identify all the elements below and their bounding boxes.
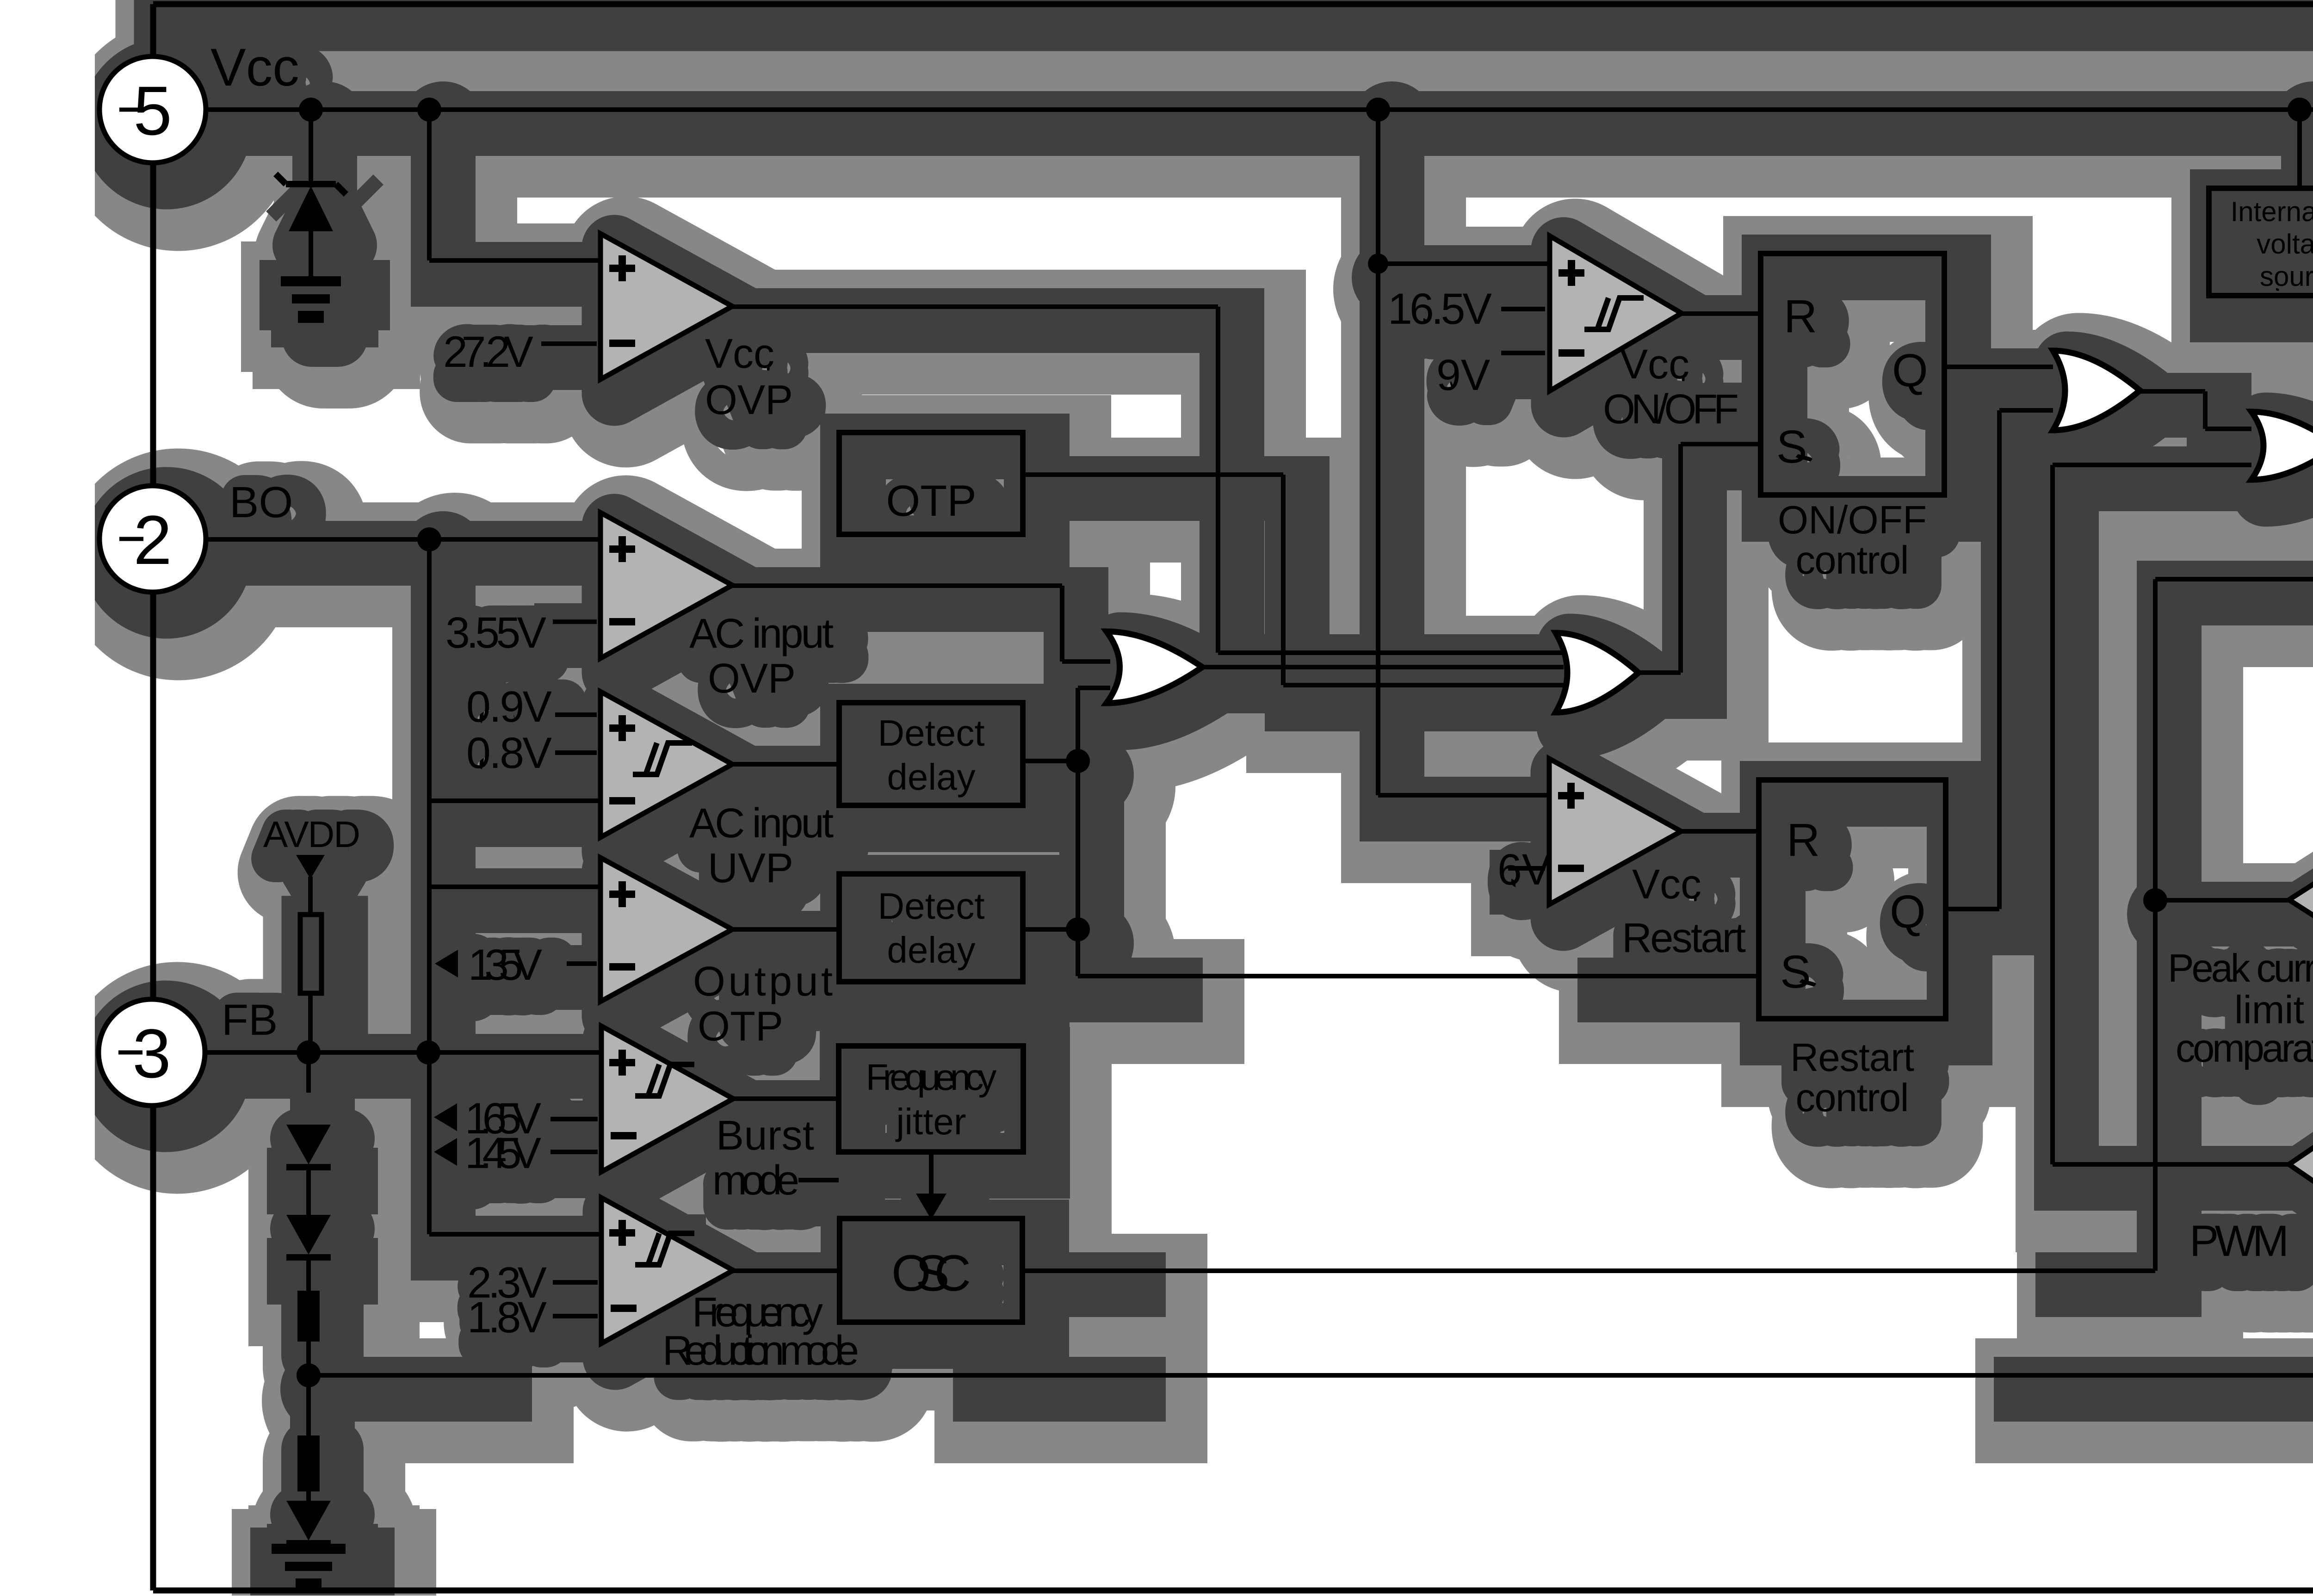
- svg-text:comparator: comparator: [2176, 1027, 2313, 1070]
- minus marker U8: [1558, 865, 1584, 872]
- node BO feed: [417, 527, 441, 551]
- wire G3 output to G4: [2140, 389, 2205, 394]
- svg-text:6V: 6V: [1497, 845, 1551, 894]
- svg-text:Peak current: Peak current: [2168, 946, 2313, 990]
- node VCC zener tap: [299, 98, 323, 122]
- block OTP: [839, 433, 1023, 534]
- wire OSC output: [1022, 1268, 1119, 1273]
- comparator U4 Output OTP: [600, 858, 732, 1002]
- comparator U10 PWM: [2289, 1039, 2313, 1291]
- plus marker U7: [1558, 260, 1584, 286]
- svg-text:ON/OFF: ON/OFF: [1778, 498, 1927, 542]
- wire FB to comparators: [205, 1050, 600, 1055]
- wire Detect delay A output: [1023, 759, 1078, 763]
- pin 2 BO: [99, 486, 206, 592]
- wire U3 output into Detect delay A: [732, 762, 839, 767]
- svg-text:OVP: OVP: [705, 377, 793, 423]
- svg-text:Burst: Burst: [716, 1113, 814, 1159]
- wire Restart Q to G3: [1946, 907, 1999, 911]
- wire VCC to U1 plus: [427, 121, 432, 260]
- node FB resistor tap: [297, 1040, 321, 1064]
- arrow jitter to OSC: [916, 1194, 946, 1219]
- svg-text:Internal low: Internal low: [2231, 196, 2313, 227]
- wire fault bus line 3: [1283, 683, 1568, 687]
- wire R1 to FB: [308, 993, 313, 1052]
- svg-text:0.9V: 0.9V: [466, 682, 552, 731]
- wire ON/OFF Q to G3: [1944, 365, 2053, 369]
- svg-text:OVP: OVP: [708, 656, 796, 702]
- svg-text:Reduction mode: Reduction mode: [662, 1328, 859, 1374]
- svg-text:Detect: Detect: [878, 712, 984, 754]
- svg-text:Frequency: Frequency: [866, 1057, 997, 1098]
- wire PWM output stub: [2053, 1162, 2289, 1167]
- comparator U5 Burst mode: [601, 1026, 733, 1172]
- wire peak comparator stub: [2155, 898, 2289, 903]
- zener diode D1 on VCC: [309, 121, 313, 184]
- node Detect A join: [1066, 749, 1090, 773]
- node VCC OVP tap: [417, 98, 441, 122]
- comparator U2 AC input OVP: [600, 513, 732, 658]
- hysteresis U5: [635, 1064, 694, 1096]
- svg-text:BO: BO: [229, 478, 293, 527]
- wire U1 output to fault bus: [732, 304, 1218, 309]
- plus marker U6: [609, 1220, 635, 1246]
- wire fault vertical to OR1 input B: [1076, 688, 1080, 976]
- svg-text:27.2V: 27.2V: [443, 328, 533, 377]
- wire 1.8V dash: [553, 1314, 598, 1318]
- svg-text:5: 5: [133, 72, 172, 149]
- plus marker U5: [609, 1050, 635, 1076]
- wire U7 output to latch R: [1682, 311, 1761, 316]
- block OSC: [840, 1219, 1022, 1322]
- IC package border bottom: [153, 1588, 2313, 1594]
- IC package border top: [153, 1, 2313, 7]
- wire 16.5V dash: [1501, 307, 1545, 311]
- comparator U8 Vcc Restart: [1549, 759, 1681, 904]
- arrow AVDD down: [296, 855, 325, 879]
- svg-text:AVDD: AVDD: [263, 814, 360, 855]
- wire FB to U6: [429, 1232, 601, 1237]
- wire VCC to internal source: [2297, 121, 2302, 188]
- wire BO to U2 plus: [207, 537, 600, 542]
- OR gate G4: [2251, 412, 2313, 480]
- wire G2 to ON/OFF latch S: [1678, 444, 1683, 673]
- node FB sense tap: [416, 1040, 440, 1064]
- svg-text:9V: 9V: [1436, 351, 1490, 400]
- wire 1.65V dash: [550, 1117, 598, 1121]
- wire to OR1 input B: [1078, 686, 1110, 690]
- svg-text:AC input: AC input: [689, 611, 834, 657]
- svg-text:jitter: jitter: [895, 1101, 966, 1142]
- svg-text:R: R: [1787, 814, 1820, 866]
- wire FB diode chain: [306, 1052, 311, 1093]
- diode D5 body: [297, 1435, 320, 1491]
- comparator U1 Vcc OVP: [600, 234, 732, 379]
- arrow 1.65V node: [434, 1103, 457, 1131]
- wire VCC sense vertical: [1376, 121, 1380, 795]
- svg-text:3: 3: [132, 1015, 171, 1092]
- wire BO sense vertical: [427, 539, 432, 801]
- plus marker U3: [609, 715, 635, 741]
- hysteresis U7: [1584, 298, 1644, 329]
- wire 27.2V dash: [541, 341, 597, 346]
- wire 2.3V dash: [553, 1280, 598, 1285]
- node internal source tap: [2288, 98, 2312, 122]
- wire peak fault to G4: [2053, 463, 2251, 467]
- plus marker U1: [609, 255, 635, 281]
- wire D2 to D3: [306, 1167, 311, 1221]
- block Detect delay A: [839, 703, 1023, 805]
- svg-text:limit: limit: [2234, 988, 2304, 1032]
- svg-text:UVP: UVP: [708, 845, 793, 891]
- diode D2: [286, 1125, 331, 1164]
- svg-text:R: R: [1784, 291, 1817, 342]
- svg-text:Detect: Detect: [878, 885, 984, 927]
- comparator U9 peak current limit: [2289, 782, 2313, 1018]
- block Internal low voltage source: [2209, 188, 2313, 296]
- minus marker U3: [609, 797, 635, 804]
- block ON/OFF control latch: [1761, 254, 1944, 495]
- diode D4 body: [297, 1291, 320, 1342]
- node VCC sense branch: [1368, 254, 1388, 274]
- svg-text:OTP: OTP: [698, 1003, 783, 1050]
- OR gate G3: [2053, 351, 2140, 430]
- svg-text:1.35V: 1.35V: [468, 940, 542, 990]
- block Restart control latch: [1759, 780, 1946, 1019]
- wire VCC sense to U7: [1378, 261, 1550, 266]
- svg-text:2: 2: [133, 501, 172, 579]
- OR gate G1: [1107, 631, 1202, 703]
- wire 0.8V dash: [555, 750, 597, 755]
- svg-text:OTP: OTP: [886, 476, 976, 526]
- svg-text:16.5V: 16.5V: [1388, 285, 1492, 334]
- svg-text:delay: delay: [887, 756, 975, 798]
- OR gate G2: [1556, 633, 1639, 712]
- hysteresis U6: [635, 1233, 694, 1265]
- wire 9V dash: [1501, 351, 1545, 355]
- svg-text:voltage: voltage: [2257, 229, 2313, 260]
- wire U6 output to OSC: [733, 1268, 840, 1273]
- svg-text:Restart: Restart: [1622, 915, 1746, 961]
- svg-text:ON/OFF: ON/OFF: [1603, 386, 1739, 433]
- wire BO to U3 plus: [429, 798, 600, 803]
- node Detect B join: [1066, 917, 1090, 941]
- block Frequency jitter: [839, 1046, 1023, 1152]
- wire G2 output: [1639, 670, 1681, 675]
- svg-text:Restart: Restart: [1790, 1036, 1914, 1080]
- plus marker U8: [1558, 783, 1584, 809]
- diode D3: [286, 1215, 331, 1255]
- wire FB sense vertical: [427, 801, 432, 1234]
- arrow 1.35V node: [435, 950, 458, 977]
- wire U4 output into Detect delay B: [732, 927, 838, 932]
- IC package border left: [150, 4, 156, 1590]
- svg-text:Q: Q: [1890, 886, 1926, 938]
- svg-text:delay: delay: [887, 929, 975, 971]
- comparator U3 AC input UVP: [600, 692, 732, 837]
- svg-text:Vcc: Vcc: [1620, 341, 1689, 388]
- comparator U6 Frequency Reduction: [601, 1198, 733, 1343]
- wire fault bus line 1: [1218, 650, 1568, 655]
- wire VCC rail: [207, 107, 2313, 112]
- wire 6V dash: [1508, 866, 1545, 871]
- wire D3 to D4: [306, 1257, 311, 1291]
- wire U2 output to OR1: [732, 583, 1062, 588]
- svg-text:AC input: AC input: [689, 800, 834, 847]
- svg-text:PWM: PWM: [2189, 1217, 2289, 1266]
- wire AVDD to R1: [308, 877, 313, 915]
- minus marker U4: [609, 963, 635, 971]
- resistor R1: [300, 915, 322, 993]
- pin 3 FB: [99, 999, 205, 1106]
- svg-text:0.8V: 0.8V: [466, 729, 552, 778]
- svg-text:Vcc: Vcc: [1632, 861, 1701, 908]
- svg-text:Vcc: Vcc: [210, 38, 299, 97]
- minus marker U6: [611, 1305, 637, 1312]
- svg-text:S: S: [1780, 946, 1811, 998]
- svg-text:Q: Q: [1892, 345, 1928, 396]
- svg-text:FB: FB: [222, 996, 278, 1045]
- plus marker U2: [609, 536, 635, 562]
- svg-text:OSC: OSC: [891, 1245, 971, 1302]
- wire to OR1 input A: [1062, 659, 1110, 664]
- node PWM DC tap: [297, 1363, 321, 1387]
- wire PWM output vertical: [2050, 465, 2055, 1164]
- svg-text:1.8V: 1.8V: [467, 1293, 547, 1342]
- wire jitter to OSC: [929, 1152, 934, 1199]
- block Detect delay B: [839, 874, 1023, 982]
- svg-text:Output: Output: [693, 959, 833, 1005]
- svg-text:control: control: [1796, 538, 1909, 582]
- minus marker U2: [609, 618, 635, 625]
- hysteresis U3: [633, 743, 692, 774]
- node peak comparator join: [2143, 888, 2167, 912]
- wire VCC sense to U8: [1378, 793, 1549, 798]
- pin 5 VCC: [99, 56, 206, 163]
- wire OSC set vertical: [2153, 579, 2158, 1271]
- svg-text:mode: mode: [712, 1157, 799, 1204]
- wire 1.35V dash: [567, 961, 597, 966]
- wire mode dash: [798, 1178, 839, 1182]
- plus marker U4: [609, 881, 635, 907]
- svg-text:S: S: [1776, 421, 1807, 473]
- comparator U7 Vcc ON/OFF: [1550, 236, 1682, 391]
- minus marker U5: [611, 1132, 637, 1139]
- wire 3.55V dash: [553, 619, 597, 624]
- minus marker U7: [1558, 349, 1584, 357]
- wire 0.9V dash: [555, 712, 597, 717]
- wire U5 output to Frequency jitter: [733, 1096, 839, 1101]
- svg-text:source: source: [2260, 261, 2313, 292]
- wire D5 to D6: [306, 1491, 311, 1513]
- wire OTP output to fault bus: [1023, 472, 1283, 477]
- minus marker U1: [609, 340, 635, 347]
- wire set line to logic latch S: [2155, 577, 2313, 581]
- wire 1.45V dash: [550, 1150, 598, 1154]
- wire FB sense to U4 plus: [429, 885, 600, 889]
- wire PWM DC level: [309, 1373, 486, 1378]
- node VCC sense tap: [1366, 98, 1390, 122]
- svg-text:3.55V: 3.55V: [445, 608, 546, 657]
- diode D6: [286, 1501, 331, 1540]
- wire D4 to tap: [306, 1342, 311, 1435]
- ground of zener D1: [281, 276, 341, 286]
- wire fault line to Restart S: [1078, 974, 1156, 978]
- wire Detect delay B output: [1022, 927, 1078, 932]
- svg-text:1.45V: 1.45V: [465, 1129, 541, 1178]
- ground of FB diode chain: [272, 1544, 346, 1554]
- arrow 1.45V node: [434, 1138, 457, 1166]
- wire fault bus line 2: [1202, 665, 1564, 669]
- wire U8 output to Restart latch R: [1681, 829, 1759, 834]
- svg-text:control: control: [1796, 1076, 1909, 1120]
- svg-text:Vcc: Vcc: [705, 331, 774, 377]
